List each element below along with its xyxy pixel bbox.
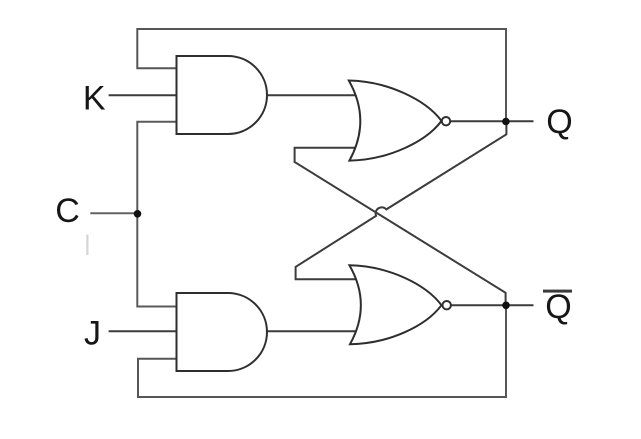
node: Qbar output junction xyxy=(502,302,510,310)
and-gate A1 (K clock gate) xyxy=(177,56,268,134)
node: Q output junction xyxy=(502,118,510,126)
wire: NOR G1 output to Q xyxy=(449,120,533,122)
svg-text:Q: Q xyxy=(546,103,572,141)
svg-text:J: J xyxy=(84,315,101,353)
node: C input junction xyxy=(134,210,142,218)
nor-gate G1 (Q gate) xyxy=(349,81,442,161)
wire: C input horizontal xyxy=(91,212,137,214)
wire: C line down branch to AND A2 top input xyxy=(137,212,181,307)
wire: Q feedback top rail to AND A1 top input xyxy=(137,29,506,118)
wire: AND A1 output to NOR G1 top input xyxy=(260,94,362,96)
svg-text:K: K xyxy=(83,80,106,118)
inverter bubble of G2 xyxy=(443,301,451,309)
wire: cross-couple from Qbar node diagonal to NOR G1 bottom input xyxy=(295,148,506,306)
nor-gate G2 (Qbar gate) xyxy=(349,265,441,344)
wire: Qbar feedback bottom rail to AND A2 bottom input xyxy=(138,308,506,397)
and-gate A2 (J clock gate) xyxy=(177,293,267,371)
wire: J input xyxy=(110,330,181,332)
wire: C line up branch to AND A1 bottom input xyxy=(137,122,181,214)
artifact: faint gray mark below C xyxy=(86,235,88,256)
wire: NOR G2 output to Qbar xyxy=(450,304,533,306)
overline of Qbar xyxy=(543,290,572,293)
wire: AND A2 output to NOR G2 bottom input xyxy=(260,330,362,332)
inverter bubble of G1 xyxy=(442,117,450,125)
wire: K input xyxy=(110,94,181,96)
svg-text:C: C xyxy=(55,192,80,230)
wire: cross-couple from Q node diagonal to NOR G2 top input (with hop over) xyxy=(296,122,507,280)
svg-text:Q: Q xyxy=(545,288,571,326)
